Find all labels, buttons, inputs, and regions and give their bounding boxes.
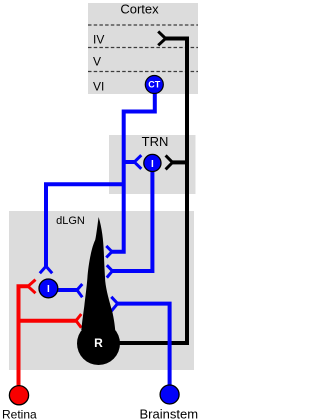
svg-text:Retina: Retina [2,408,37,420]
svg-text:I: I [151,159,154,170]
synapse terminal: CT branch onto dLGN I cell [40,266,52,273]
brainstem node [160,385,179,404]
synapse terminal: CT branch onto TRN I cell [134,155,141,169]
svg-text:Cortex: Cortex [120,2,159,17]
svg-text:VI: VI [93,79,104,93]
retina node [9,386,28,405]
wire: R relay axon (soma to cortex layer IV) [118,39,187,344]
svg-text:TRN: TRN [142,134,169,149]
synapse terminal: CT axon onto R dendrite [106,246,112,258]
wire: CT corticothalamic axon trunk [112,88,155,252]
svg-text:Brainstem: Brainstem [140,407,199,420]
svg-text:CT: CT [148,80,160,90]
wire: dLGN I cell axon to R [55,288,77,292]
wire: retinal axon trunk [19,286,29,390]
synapse terminal: retinal branch onto R dendrite [76,314,81,328]
svg-text:V: V [93,54,101,68]
cortex box [88,3,198,94]
relay neuron R soma [77,322,120,365]
svg-text:I: I [47,284,50,295]
synapse terminal: R collateral onto TRN I cell [166,155,173,169]
layer boundary dashed line 3 [88,71,198,73]
layer boundary dashed line 1 [88,24,198,26]
synapse terminal: dLGN I axon onto R dendrite [77,284,82,297]
dLGN box [9,211,194,370]
synapse terminal: R axon in cortex layer IV [158,31,165,45]
synapse terminal: TRN axon onto R dendrite [107,265,113,277]
layer boundary dashed line 2 [88,47,198,49]
dLGN I neuron soma [39,279,58,298]
wire: TRN I cell axon to R [112,168,152,271]
wire: retinal branch to R [19,319,77,323]
wire: CT branch to dLGN interneuron [46,184,124,266]
svg-text:IV: IV [93,33,104,47]
svg-text:dLGN: dLGN [56,215,85,227]
synapse terminal: retinal axon onto dLGN I cell [28,280,36,294]
wire: CT branch to TRN I cell [124,160,135,164]
synapse terminal: brainstem axon onto R dendrite [111,297,117,311]
TRN I neuron soma [144,154,161,171]
CT neuron soma [145,76,163,94]
wire: brainstem axon to R [118,304,170,390]
relay neuron R dendrite (teardrop) [81,217,115,330]
TRN box [109,135,196,194]
wire: R axon collateral to TRN [173,160,188,164]
svg-text:R: R [94,336,103,350]
